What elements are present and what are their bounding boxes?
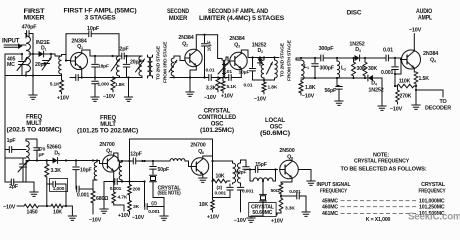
svg-text:680Ω: 680Ω bbox=[96, 196, 108, 202]
svg-text:200: 200 bbox=[133, 187, 141, 193]
capacitor 1,000 feedthrough box bbox=[50, 179, 68, 192]
svg-text:0.01: 0.01 bbox=[206, 68, 215, 74]
svg-text:CRYSTAL: CRYSTAL bbox=[421, 182, 446, 188]
neutralization rail join bbox=[118, 34, 120, 56]
svg-text:1,000: 1,000 bbox=[53, 186, 65, 192]
wire collector to transformer bbox=[217, 35, 219, 59]
svg-text:56pF: 56pF bbox=[324, 88, 336, 94]
svg-text:(50.6MC): (50.6MC) bbox=[260, 131, 290, 137]
svg-text:LOCAL: LOCAL bbox=[265, 118, 285, 124]
collector Q6 bbox=[202, 156, 204, 159]
resistor 3K bias bbox=[128, 201, 132, 212]
svg-text:−10V: −10V bbox=[409, 28, 422, 34]
svg-text:CRYSTAL: CRYSTAL bbox=[204, 109, 231, 115]
parallel coil bbox=[249, 170, 251, 182]
svg-text:1.8K: 1.8K bbox=[305, 85, 316, 91]
svg-text:FREQ: FREQ bbox=[26, 115, 43, 121]
emitter Q5 to ground bbox=[113, 171, 115, 182]
ground emitter bbox=[415, 86, 417, 105]
svg-text:− − − − − − − − − − − −: − − − − − − − − − − − − bbox=[340, 198, 416, 204]
svg-text:50Ω: 50Ω bbox=[271, 188, 280, 194]
resistor 1.8K to -10V bbox=[263, 80, 265, 82]
svg-text:SECOND: SECOND bbox=[167, 9, 190, 15]
collector Q5 bbox=[113, 153, 115, 156]
svg-text:+10V: +10V bbox=[57, 96, 70, 102]
emitter Q2 to ground bbox=[195, 66, 197, 70]
svg-text:(101.25MC): (101.25MC) bbox=[200, 128, 234, 134]
svg-text:110K: 110K bbox=[399, 79, 411, 85]
svg-text:10K: 10K bbox=[53, 210, 62, 216]
svg-text:+10V: +10V bbox=[118, 213, 131, 219]
svg-text:MULT: MULT bbox=[26, 121, 42, 127]
oscillator transformer bbox=[233, 163, 236, 183]
svg-text:1450: 1450 bbox=[27, 210, 38, 216]
svg-text:10μF: 10μF bbox=[239, 70, 250, 76]
resistor 200 bbox=[129, 161, 131, 185]
svg-text:FIRST: FIRST bbox=[24, 9, 46, 15]
svg-text:10pF: 10pF bbox=[80, 168, 92, 174]
svg-text:0.001: 0.001 bbox=[289, 189, 301, 195]
main lower bus second mixer bbox=[170, 77, 209, 79]
svg-text:CRYSTAL FREQUENCY: CRYSTAL FREQUENCY bbox=[354, 159, 410, 165]
capacitor 18pF bbox=[94, 56, 96, 63]
svg-text:(202.5 TO 405MC): (202.5 TO 405MC) bbox=[7, 128, 62, 134]
svg-text:3.3K: 3.3K bbox=[285, 206, 295, 212]
capacitor (2) 0.001 at transformer bbox=[229, 184, 231, 186]
svg-text:5.1K: 5.1K bbox=[227, 84, 237, 90]
svg-text:62pF: 62pF bbox=[236, 170, 247, 176]
svg-text:MC: MC bbox=[7, 62, 15, 68]
disc lower bus bbox=[301, 77, 315, 79]
capacitor 10uF bbox=[204, 35, 206, 43]
svg-text:0.001: 0.001 bbox=[77, 193, 89, 199]
svg-text:−10V: −10V bbox=[89, 218, 102, 224]
emitter Q3 bbox=[240, 68, 242, 77]
svg-text:(2): (2) bbox=[151, 201, 157, 207]
resistor 4.7K to +10V bbox=[113, 182, 115, 193]
capacitor 0.001 output bbox=[281, 195, 297, 197]
svg-text:OSC: OSC bbox=[211, 122, 224, 128]
emitter Q4 bbox=[413, 68, 415, 72]
svg-text:SeekIC.com: SeekIC.com bbox=[408, 212, 460, 223]
svg-text:AMPL: AMPL bbox=[418, 16, 432, 22]
svg-text:30K: 30K bbox=[368, 66, 377, 72]
capacitor 1,000 emitter bypass bbox=[94, 78, 96, 81]
tuned winding bbox=[139, 56, 142, 76]
resistor 3.3K Q7 bbox=[279, 198, 283, 211]
svg-text:AUDIO: AUDIO bbox=[416, 9, 432, 15]
svg-text:−10V: −10V bbox=[234, 218, 247, 224]
svg-text:+10V: +10V bbox=[221, 94, 234, 100]
svg-text:− − − − − − − − − − − −: − − − − − − − − − − − − bbox=[340, 205, 416, 211]
svg-text:12pF: 12pF bbox=[130, 152, 142, 158]
capacitor 10pF shunt bbox=[75, 161, 77, 166]
svg-text:1.8K: 1.8K bbox=[115, 82, 125, 88]
svg-text:CONTROLLED: CONTROLLED bbox=[198, 115, 237, 121]
capacitor (2) 0.001 bbox=[144, 182, 146, 207]
svg-text:10K: 10K bbox=[199, 202, 208, 208]
crystal 50.60MC bbox=[262, 181, 264, 194]
svg-text:0.001: 0.001 bbox=[148, 209, 160, 215]
freq mult tank coil bbox=[26, 141, 29, 162]
wire to Q1 base bbox=[61, 55, 63, 57]
svg-text:K = X1,000: K = X1,000 bbox=[366, 217, 391, 223]
svg-text:FROM 3RD STAGE: FROM 3RD STAGE bbox=[163, 41, 169, 83]
svg-text:18pF: 18pF bbox=[98, 63, 109, 69]
svg-text:TO BE SELECTED AS FOLLOWS:: TO BE SELECTED AS FOLLOWS: bbox=[341, 167, 427, 173]
svg-text:2pF: 2pF bbox=[119, 46, 129, 52]
svg-text:FREQ: FREQ bbox=[100, 116, 117, 122]
output to decoder bbox=[416, 89, 443, 91]
svg-text:TO: TO bbox=[439, 99, 446, 105]
svg-text:+10V: +10V bbox=[207, 215, 220, 221]
coil 55MC secondary bbox=[59, 56, 62, 74]
wire to Q3 base bbox=[226, 56, 228, 58]
trimmer cap in tank bbox=[5, 157, 26, 159]
svg-text:50.60MC: 50.60MC bbox=[252, 210, 272, 216]
trimmer tank 2pF bbox=[4, 150, 6, 159]
base node Q4 bbox=[400, 58, 402, 60]
collector choke coil bbox=[119, 162, 122, 180]
svg-text:270K: 270K bbox=[400, 94, 412, 100]
svg-text:300pF: 300pF bbox=[319, 46, 335, 52]
svg-text:−10V: −10V bbox=[302, 94, 315, 100]
svg-text:MIXER: MIXER bbox=[169, 16, 188, 22]
rail to +10V with 10K bbox=[212, 161, 214, 200]
svg-text:15pF: 15pF bbox=[255, 162, 267, 168]
wire Q7 collector top bbox=[291, 158, 293, 161]
svg-text:−10V: −10V bbox=[390, 107, 403, 113]
series coil to Q6 base bbox=[170, 159, 185, 161]
svg-text:−10V: −10V bbox=[3, 205, 16, 211]
svg-text:2N500: 2N500 bbox=[279, 148, 294, 154]
svg-text:TO 2ND STAGE: TO 2ND STAGE bbox=[280, 42, 286, 77]
resistor 5.1K to +10V bbox=[222, 78, 224, 82]
ground at bottom bus bbox=[71, 206, 73, 216]
svg-text:470pF: 470pF bbox=[22, 25, 38, 31]
svg-text:0.001: 0.001 bbox=[215, 191, 227, 197]
svg-text:(2): (2) bbox=[216, 185, 222, 191]
emitter Q6 ground bbox=[202, 174, 204, 178]
emitter bus bbox=[70, 77, 76, 79]
svg-text:FROM 5TH STAGE: FROM 5TH STAGE bbox=[287, 39, 293, 81]
svg-text:1.8K: 1.8K bbox=[268, 85, 278, 91]
emitter wire Q1 bbox=[81, 69, 83, 78]
svg-text:MULT: MULT bbox=[100, 122, 116, 128]
collector Q7 to ground bbox=[298, 169, 311, 171]
svg-text:0.001: 0.001 bbox=[381, 70, 393, 76]
capacitor 10uF Q3 bbox=[252, 58, 254, 68]
svg-text:3K: 3K bbox=[133, 204, 140, 210]
svg-text:1,000: 1,000 bbox=[98, 82, 110, 88]
svg-text:1N252: 1N252 bbox=[368, 88, 383, 94]
resistor 3.3K bbox=[216, 78, 220, 91]
ground for 30K bbox=[381, 78, 383, 106]
ground bbox=[32, 76, 34, 96]
svg-text:0.001: 0.001 bbox=[110, 186, 122, 192]
svg-text:2N384: 2N384 bbox=[423, 51, 438, 57]
svg-text:2N384: 2N384 bbox=[178, 35, 193, 41]
feedback loop wire bbox=[129, 139, 131, 161]
svg-text:DISC: DISC bbox=[347, 11, 362, 17]
svg-text:MIXER: MIXER bbox=[24, 16, 46, 22]
svg-text:5.1K: 5.1K bbox=[50, 82, 60, 88]
svg-text:FREQUENCY: FREQUENCY bbox=[320, 189, 347, 195]
resistor 50 ohm bbox=[279, 183, 283, 194]
left rail wire down to freq mult bbox=[5, 53, 22, 55]
capacitor 50pF bbox=[152, 161, 154, 165]
svg-text:101,000MC: 101,000MC bbox=[419, 198, 445, 204]
limiter transformer bbox=[261, 60, 264, 78]
svg-text:1.5K: 1.5K bbox=[419, 76, 430, 82]
svg-text:FIRST I-F AMPL (55MC): FIRST I-F AMPL (55MC) bbox=[64, 9, 137, 15]
emitter Q7 bbox=[291, 178, 293, 182]
svg-text:+10V: +10V bbox=[271, 219, 284, 225]
svg-text:3.3K: 3.3K bbox=[51, 168, 62, 174]
svg-text:SECOND I-F AMPL AND: SECOND I-F AMPL AND bbox=[208, 9, 269, 15]
svg-text:2N700: 2N700 bbox=[190, 143, 205, 149]
svg-text:3.3K: 3.3K bbox=[206, 86, 217, 92]
resistor 3.3K bbox=[45, 164, 49, 177]
capacitor 0.001 emitter bbox=[114, 179, 116, 185]
second mixer output transformer bbox=[222, 60, 225, 78]
svg-text:1pF: 1pF bbox=[7, 138, 16, 144]
resistor 1.5K bbox=[414, 72, 418, 84]
interstage transformer to 2nd stage bbox=[148, 57, 151, 76]
svg-text:(101.25 TO 202.5MC): (101.25 TO 202.5MC) bbox=[77, 129, 138, 135]
wire bbox=[25, 72, 27, 76]
resistor 680 ohm bbox=[92, 180, 94, 189]
collector wire Q1 bbox=[81, 50, 83, 54]
svg-text:−10V: −10V bbox=[132, 215, 145, 221]
svg-text:pF: pF bbox=[39, 152, 45, 158]
svg-text:101,250MC: 101,250MC bbox=[419, 205, 445, 211]
capacitor in emitter bus bbox=[75, 75, 77, 81]
svg-text:INPUT SIGNAL: INPUT SIGNAL bbox=[317, 182, 352, 188]
coil L first mixer tank bbox=[26, 36, 30, 72]
resistor 1.8K bbox=[111, 78, 115, 91]
svg-text:DECODER: DECODER bbox=[425, 106, 451, 112]
svg-text:4.7K: 4.7K bbox=[118, 195, 128, 201]
svg-text:2N384: 2N384 bbox=[229, 36, 244, 42]
svg-text:(SEE NOTE): (SEE NOTE) bbox=[158, 191, 181, 197]
svg-text:461MC: 461MC bbox=[322, 211, 338, 217]
svg-text:0.001: 0.001 bbox=[242, 189, 254, 195]
collector Q2 up bbox=[195, 35, 197, 51]
collector Q3 bbox=[240, 50, 242, 54]
ground freq mult tank bbox=[33, 182, 35, 192]
svg-text:−10V: −10V bbox=[204, 95, 217, 101]
ground output bbox=[305, 196, 307, 212]
svg-text:LIMITER (4.4MC) 5 STAGES: LIMITER (4.4MC) 5 STAGES bbox=[199, 16, 284, 22]
svg-text:10μF: 10μF bbox=[207, 40, 213, 51]
svg-text:FREQUENCY: FREQUENCY bbox=[419, 189, 446, 195]
svg-text:INPUT: INPUT bbox=[2, 39, 20, 45]
svg-text:3 STAGES: 3 STAGES bbox=[85, 16, 116, 22]
base tank coil bbox=[94, 162, 97, 180]
svg-text:460MC: 460MC bbox=[322, 205, 338, 211]
svg-text:−10V: −10V bbox=[103, 94, 116, 100]
svg-text:TO 2ND STAGE: TO 2ND STAGE bbox=[156, 45, 162, 80]
ground bbox=[124, 96, 132, 98]
collector Q4 bbox=[413, 50, 415, 52]
first mixer bottom bus bbox=[5, 75, 61, 77]
svg-text:300pF: 300pF bbox=[320, 66, 334, 72]
svg-text:459MC: 459MC bbox=[322, 198, 338, 204]
capacitor 0.001 transformer bottom bbox=[240, 185, 242, 186]
resistor 30K second bbox=[363, 62, 367, 76]
disc top bus bbox=[296, 57, 321, 59]
tank coil Q1 bbox=[116, 56, 119, 76]
svg-text:−10V: −10V bbox=[254, 97, 267, 103]
svg-text:0.01: 0.01 bbox=[244, 83, 253, 89]
input transformer from 3rd stage bbox=[171, 58, 174, 76]
resistor 30K first bbox=[352, 62, 356, 76]
secondary tank 20pF trimmer bbox=[32, 54, 34, 76]
crystal (see note) bbox=[150, 174, 157, 176]
capacitor 0.001 bbox=[76, 186, 78, 192]
svg-text:0.01: 0.01 bbox=[383, 48, 393, 54]
svg-text:50pF: 50pF bbox=[158, 167, 170, 173]
svg-text:OSC: OSC bbox=[270, 125, 283, 131]
svg-text:2N700: 2N700 bbox=[99, 142, 114, 148]
